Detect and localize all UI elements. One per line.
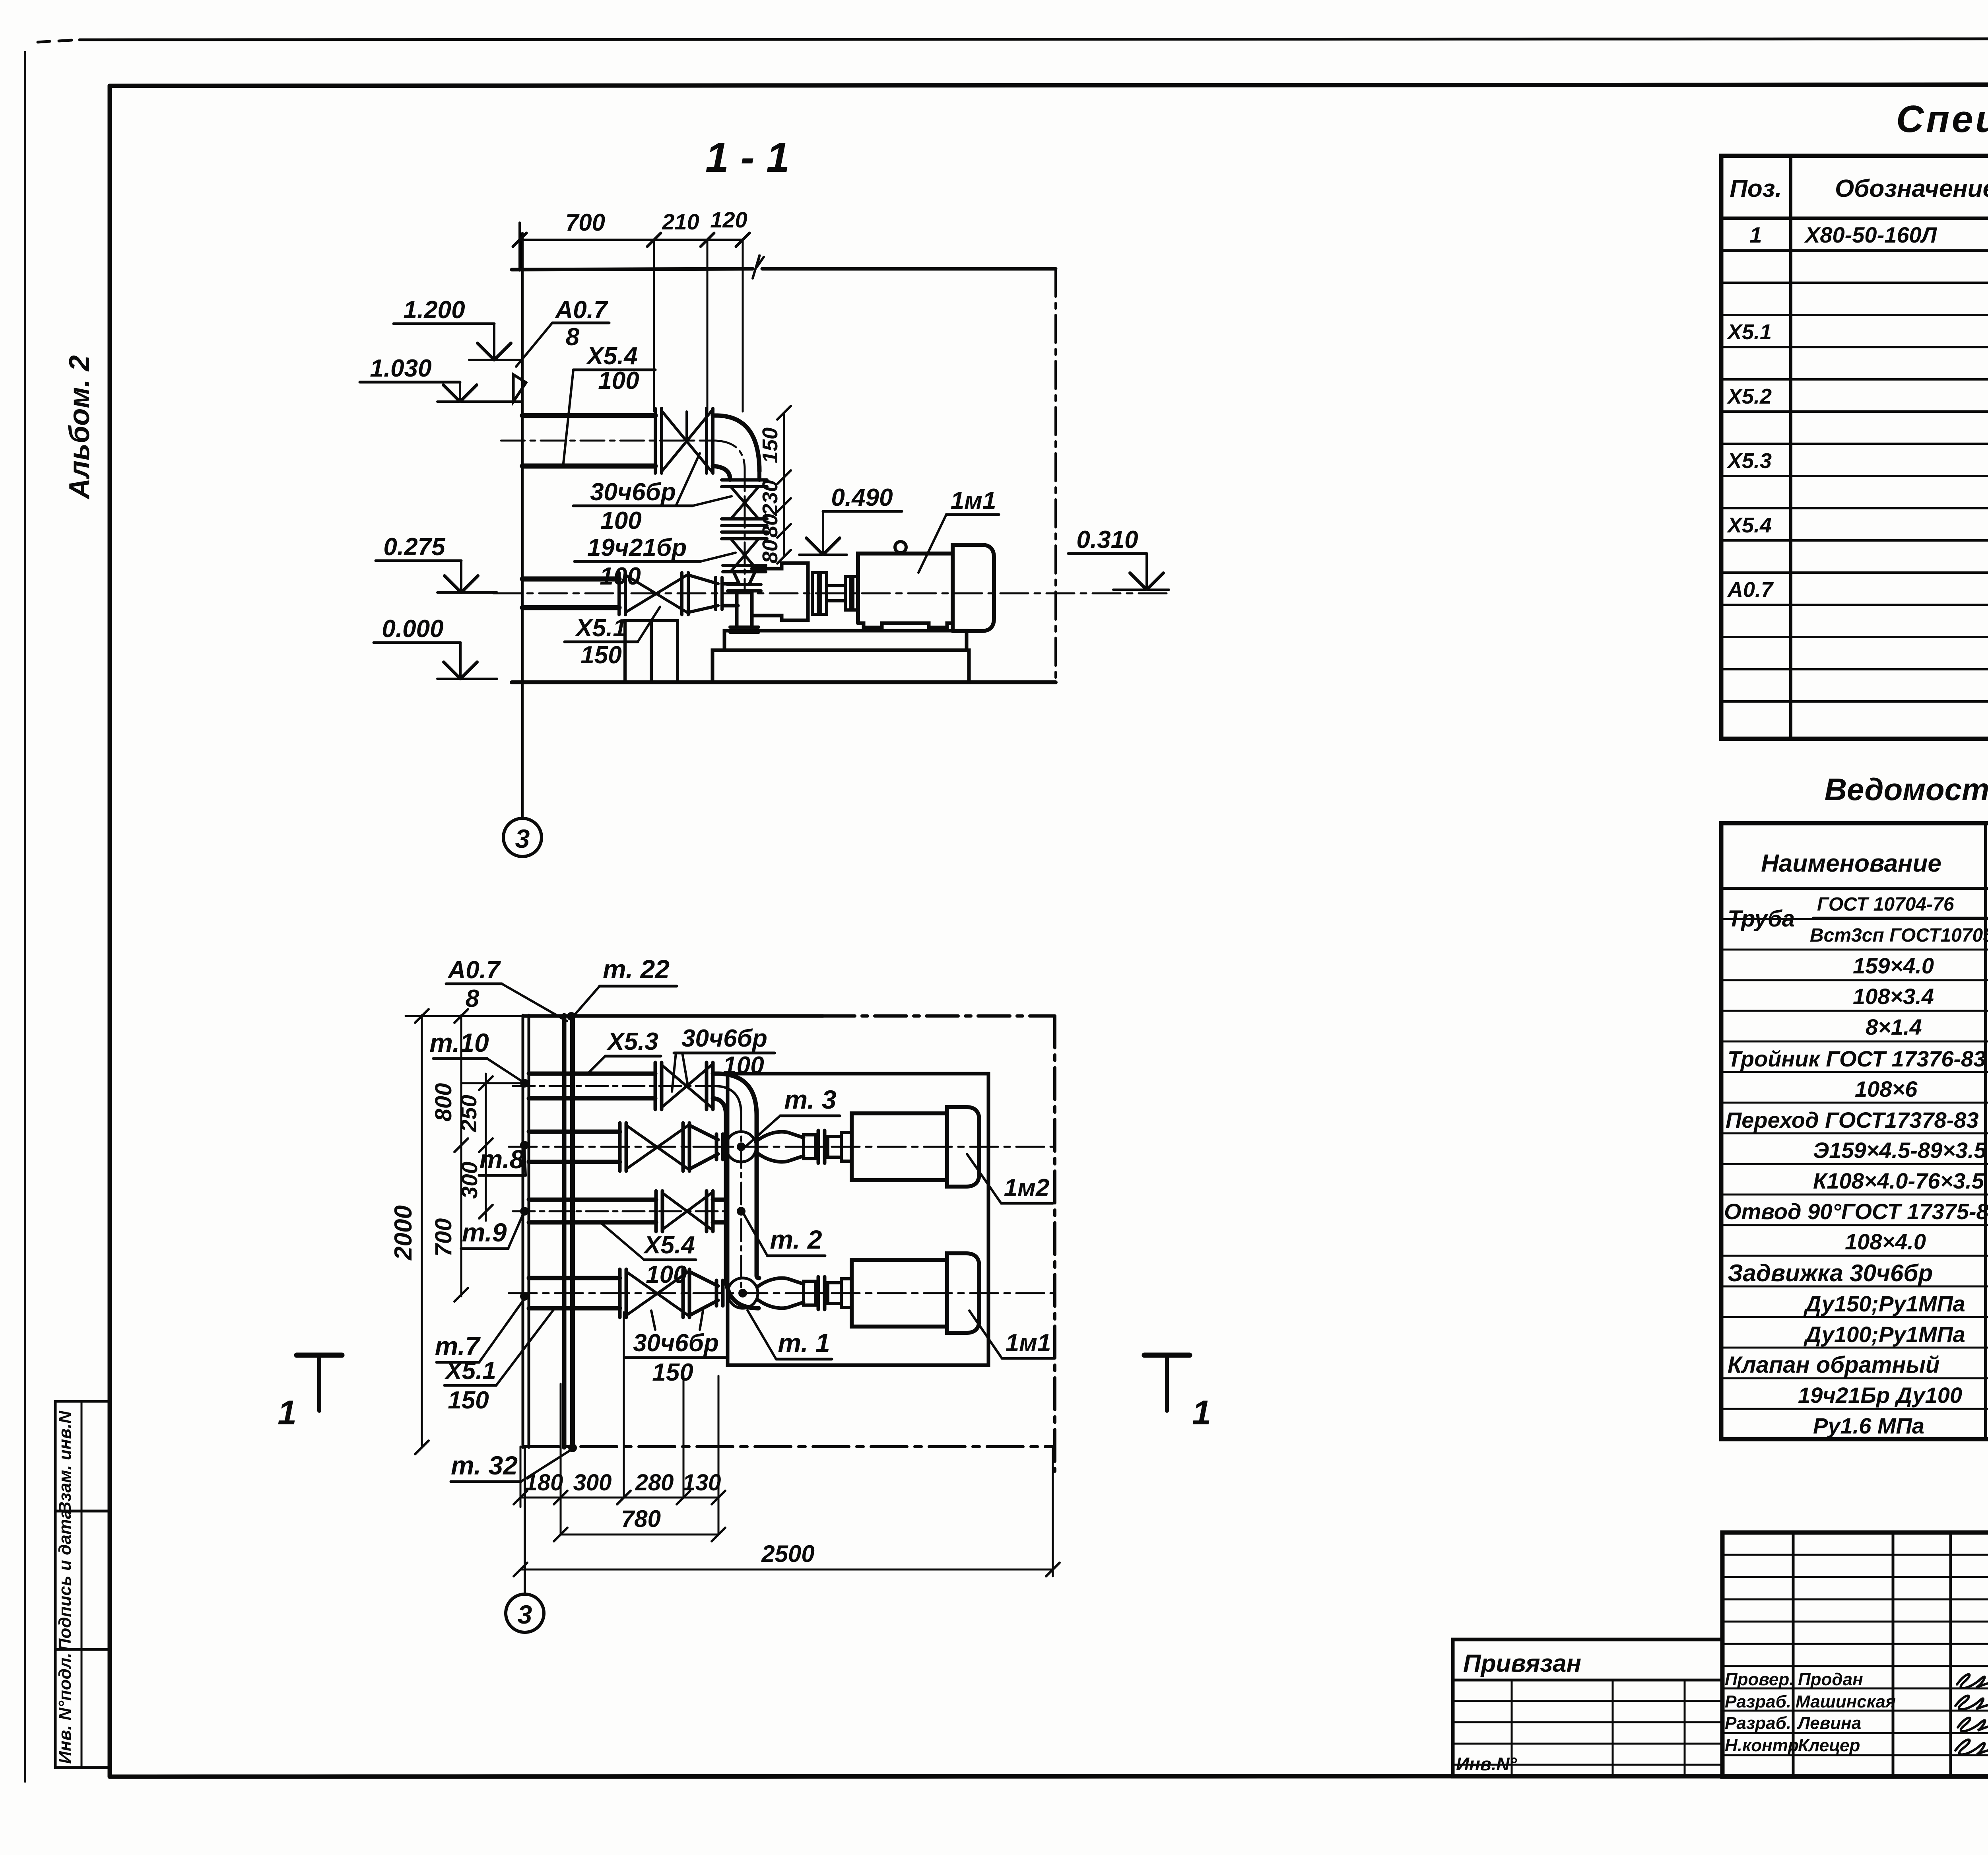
svg-text:1: 1 bbox=[1192, 1394, 1211, 1432]
svg-text:т.10: т.10 bbox=[429, 1028, 489, 1057]
svg-text:Н.контр: Н.контр bbox=[1725, 1736, 1799, 1755]
vedomost headers bbox=[1761, 829, 1988, 886]
sheet outer edge left bbox=[24, 52, 26, 1781]
section title 1-1 bbox=[705, 134, 790, 181]
section marker 1Т (left) bbox=[278, 1355, 342, 1432]
stamp outer box bbox=[1722, 1533, 1988, 1777]
room ceiling line bbox=[512, 254, 1056, 278]
pump baseplate bbox=[724, 631, 967, 650]
table title Ведомость трубопроводов bbox=[1825, 772, 1988, 807]
svg-text:Труба: Труба bbox=[1728, 906, 1795, 932]
elevation mark 0.310 bbox=[1068, 526, 1169, 590]
svg-text:Левина: Левина bbox=[1797, 1713, 1861, 1733]
svg-text:Продан: Продан bbox=[1798, 1670, 1863, 1689]
suction pipe Х5.1 (section) bbox=[493, 579, 1169, 608]
pipe А0.7 riser along wall (plan) bbox=[564, 1015, 573, 1447]
svg-text:Х5.1: Х5.1 bbox=[575, 614, 627, 642]
svg-text:0.000: 0.000 bbox=[382, 615, 443, 643]
node т.9 dot bbox=[520, 1207, 529, 1216]
header elbow at т.1 (plan) bbox=[726, 1276, 759, 1308]
header pipe (plan, vertical) bbox=[726, 1109, 757, 1293]
svg-text:100: 100 bbox=[598, 367, 639, 394]
svg-text:Х5.4: Х5.4 bbox=[586, 342, 638, 370]
dimension chain 800/700 bbox=[431, 1009, 468, 1301]
svg-text:т. 32: т. 32 bbox=[451, 1451, 518, 1480]
reducer pump2 (plan) bbox=[689, 1125, 723, 1169]
svg-text:1.030: 1.030 bbox=[370, 355, 431, 382]
coupling (section) bbox=[812, 573, 858, 614]
svg-text:0.275: 0.275 bbox=[383, 533, 446, 561]
check valve 19ч21бр (vertical riser) bbox=[722, 532, 767, 572]
svg-text:Машинская: Машинская bbox=[1796, 1692, 1896, 1711]
svg-text:8: 8 bbox=[566, 323, 580, 351]
node label А0.7/8 bbox=[516, 296, 609, 367]
elevation mark 1.200 bbox=[394, 296, 520, 360]
svg-text:ГОСТ 10704-76: ГОСТ 10704-76 bbox=[1817, 894, 1954, 915]
floor line 0.000 bbox=[512, 680, 1056, 684]
svg-text:Ду100;Ру1МПа: Ду100;Ру1МПа bbox=[1804, 1322, 1965, 1347]
valve label 30ч6бр/100 bbox=[573, 453, 732, 534]
extension lines bbox=[654, 240, 743, 412]
equipment block outline (plan) bbox=[728, 1074, 988, 1365]
dimension line 700/210/120 bbox=[513, 207, 749, 270]
svg-text:1: 1 bbox=[278, 1394, 297, 1432]
elbow to riser bbox=[713, 416, 759, 479]
riser dimension chain 150/230/80/80 bbox=[758, 406, 791, 563]
dimension chain 250/300 bbox=[456, 1074, 523, 1221]
svg-text:2500: 2500 bbox=[761, 1540, 814, 1567]
svg-text:Переход ГОСТ17378-83: Переход ГОСТ17378-83 bbox=[1726, 1107, 1979, 1132]
pipe label Х5.1/150 bbox=[565, 607, 660, 669]
svg-text:159×4.0: 159×4.0 bbox=[1853, 953, 1934, 978]
dimension 2000 (vertical) bbox=[390, 1009, 529, 1454]
discharge cone into pump bbox=[728, 572, 761, 591]
pump casing (section) bbox=[730, 563, 808, 632]
svg-text:780: 780 bbox=[621, 1505, 661, 1532]
stamp left grid bbox=[1722, 1533, 1988, 1777]
wall sleeve pennant bbox=[513, 375, 526, 402]
svg-text:Инв.N°: Инв.N° bbox=[1456, 1754, 1517, 1774]
vedomost grid bbox=[1721, 823, 1988, 1439]
svg-text:т. 22: т. 22 bbox=[603, 954, 670, 984]
gate valve on pump1 suction (plan) bbox=[620, 1269, 689, 1317]
svg-text:700: 700 bbox=[431, 1218, 456, 1257]
pipe label Х5.4/100 bbox=[563, 342, 655, 463]
svg-text:Х5.4: Х5.4 bbox=[1726, 513, 1772, 537]
svg-text:108×6: 108×6 bbox=[1855, 1076, 1918, 1101]
gate valve 30ч6бр (vertical riser) bbox=[722, 480, 767, 526]
svg-text:Х5.2: Х5.2 bbox=[1726, 385, 1772, 408]
svg-text:Наименование: Наименование bbox=[1761, 850, 1941, 877]
label Х5.3 bbox=[588, 1028, 661, 1074]
label т.3 bbox=[744, 1085, 840, 1148]
label т.9 bbox=[461, 1213, 524, 1249]
room boundary bottom (plan, dash-dot) bbox=[523, 1445, 1055, 1448]
elevation mark 0.000 bbox=[374, 615, 497, 679]
spec rows text bbox=[1726, 222, 1988, 634]
node т.7 dot bbox=[520, 1292, 529, 1301]
elevation mark 1.030 bbox=[360, 355, 522, 402]
svg-text:3: 3 bbox=[515, 824, 530, 853]
section marker Т1 (right) bbox=[1144, 1355, 1211, 1432]
pipe Х5.4 (plan middle run) bbox=[513, 1200, 726, 1222]
elbow Х5.3 to header (plan) bbox=[713, 1074, 757, 1115]
node т.8 dot bbox=[520, 1141, 529, 1150]
svg-text:180: 180 bbox=[525, 1470, 563, 1496]
riser pipe bbox=[730, 469, 759, 592]
gate valve 30ч6бр on pipe Х5.4 (horizontal) bbox=[655, 408, 713, 473]
pump tag 1м2 bbox=[967, 1154, 1053, 1203]
bottom dimension chain 180/300/280/130 bbox=[514, 1312, 725, 1535]
svg-text:150: 150 bbox=[448, 1387, 489, 1414]
svg-text:120: 120 bbox=[710, 207, 747, 232]
tee node т.2 bbox=[737, 1207, 745, 1216]
svg-text:108×3.4: 108×3.4 bbox=[1853, 984, 1934, 1009]
svg-text:300: 300 bbox=[573, 1470, 612, 1496]
motor pump 1м2 (plan) bbox=[852, 1107, 979, 1187]
reducer pump1 (plan) bbox=[689, 1272, 723, 1315]
label т.32 bbox=[451, 1449, 572, 1482]
label А0.7/8 (plan) bbox=[446, 956, 567, 1021]
sheet outer edge top bbox=[38, 39, 1988, 42]
svg-text:Альбом. 2: Альбом. 2 bbox=[64, 355, 95, 499]
spec table headers bbox=[1730, 175, 1988, 202]
svg-text:Ведомость трубопроводов: Ведомость трубопроводов bbox=[1825, 772, 1988, 807]
label т.22 bbox=[573, 954, 677, 1017]
room boundary top (plan) bbox=[523, 1014, 1055, 1018]
rotated margin label: Альбом. 2 bbox=[64, 355, 95, 499]
label т.2 bbox=[744, 1214, 825, 1256]
svg-text:т.9: т.9 bbox=[462, 1218, 507, 1247]
svg-text:30ч6бр: 30ч6бр bbox=[590, 478, 676, 506]
svg-text:19ч21Бр Ду100: 19ч21Бр Ду100 bbox=[1798, 1383, 1962, 1408]
svg-text:Задвижка 30ч6бр: Задвижка 30ч6бр bbox=[1728, 1260, 1933, 1286]
svg-text:т. 2: т. 2 bbox=[770, 1225, 822, 1254]
svg-text:Х5.3: Х5.3 bbox=[606, 1028, 658, 1055]
svg-text:1м1: 1м1 bbox=[951, 487, 996, 515]
node т.32 dot bbox=[568, 1443, 577, 1452]
label Х5.1/150 (plan) bbox=[444, 1310, 553, 1414]
svg-text:108×4.0: 108×4.0 bbox=[1845, 1229, 1926, 1254]
svg-text:Ду150;Ру1МПа: Ду150;Ру1МПа bbox=[1804, 1291, 1965, 1316]
svg-text:А0.7: А0.7 bbox=[555, 296, 608, 324]
table title Спецификация bbox=[1896, 98, 1988, 140]
svg-text:150: 150 bbox=[758, 427, 782, 463]
pipe support stand bbox=[625, 621, 678, 682]
elevation mark 0.490 bbox=[799, 484, 902, 555]
pump tag 1м1 bbox=[969, 1311, 1054, 1358]
svg-text:230: 230 bbox=[758, 480, 782, 516]
svg-text:т. 1: т. 1 bbox=[778, 1328, 830, 1358]
svg-text:130: 130 bbox=[683, 1470, 721, 1496]
dimension 780 bbox=[554, 1505, 725, 1541]
svg-text:1м1: 1м1 bbox=[1006, 1329, 1051, 1357]
eccentric reducer bbox=[688, 575, 738, 612]
svg-text:80: 80 bbox=[758, 540, 782, 563]
suction pipe pump1 (plan) bbox=[509, 1278, 1055, 1308]
svg-text:т.7: т.7 bbox=[435, 1331, 481, 1361]
axis bubble 3 (plan) bbox=[506, 1594, 544, 1632]
elevation mark 0.275 bbox=[376, 533, 497, 592]
label 30ч6бр/150 (plan bottom) bbox=[626, 1311, 726, 1386]
label 30ч6бр/100 (plan top) bbox=[672, 1025, 775, 1092]
svg-text:1.200: 1.200 bbox=[403, 296, 465, 324]
svg-text:Поз.: Поз. bbox=[1730, 175, 1782, 202]
gate valve on suction (section) bbox=[619, 573, 688, 615]
column axis 3 (vertical) bbox=[521, 233, 524, 818]
foundation block bbox=[712, 650, 969, 682]
svg-text:210: 210 bbox=[662, 209, 699, 234]
pipe Х5.3 (plan top run) bbox=[513, 1074, 720, 1098]
svg-text:Х5.1: Х5.1 bbox=[444, 1357, 496, 1385]
svg-text:1: 1 bbox=[1749, 222, 1762, 247]
tee node т.3 bbox=[726, 1132, 756, 1162]
svg-text:Тройник ГОСТ 17376-83: Тройник ГОСТ 17376-83 bbox=[1728, 1046, 1986, 1071]
svg-text:150: 150 bbox=[580, 641, 621, 669]
pump2 suction bell (plan) bbox=[757, 1130, 852, 1163]
label т.10 bbox=[429, 1028, 524, 1082]
svg-text:Клецер: Клецер bbox=[1798, 1736, 1860, 1755]
valve label 19ч21бр/100 bbox=[575, 534, 736, 590]
svg-text:Спецификация: Спецификация bbox=[1896, 98, 1988, 140]
room boundary right (plan, dash-dot) bbox=[1053, 1016, 1056, 1471]
electric motor (section) bbox=[858, 542, 994, 631]
svg-text:Ру1.6 МПа: Ру1.6 МПа bbox=[1813, 1413, 1924, 1438]
label т.8 bbox=[479, 1144, 526, 1175]
svg-text:30ч6бр: 30ч6бр bbox=[681, 1025, 767, 1052]
svg-text:30ч6бр: 30ч6бр bbox=[633, 1329, 719, 1357]
label т.1 bbox=[747, 1310, 832, 1359]
dimension 2500 bbox=[514, 1447, 1060, 1576]
svg-text:Х5.1: Х5.1 bbox=[1726, 320, 1772, 344]
node т.22 dot bbox=[567, 1012, 576, 1021]
pipe Х5.4 upper (section) bbox=[501, 416, 716, 466]
svg-text:Разраб.: Разраб. bbox=[1725, 1713, 1791, 1733]
svg-text:1м2: 1м2 bbox=[1004, 1174, 1050, 1202]
svg-text:3: 3 bbox=[518, 1600, 532, 1629]
svg-text:т.8: т.8 bbox=[480, 1144, 524, 1174]
svg-text:0.490: 0.490 bbox=[831, 484, 893, 511]
svg-text:150: 150 bbox=[652, 1359, 693, 1386]
room right axis (dash-dot) bbox=[1054, 269, 1057, 682]
gate valve on Х5.4 (plan) bbox=[656, 1191, 726, 1231]
axis bubble 3 bbox=[503, 818, 542, 857]
pump1 suction bell (plan) bbox=[757, 1277, 852, 1309]
suction pipe pump2 (plan) bbox=[509, 1132, 1055, 1162]
vedomost rows bbox=[1724, 894, 1988, 1438]
svg-text:Х5.3: Х5.3 bbox=[1726, 449, 1772, 473]
svg-text:250: 250 bbox=[456, 1095, 481, 1132]
privyazan block bbox=[1453, 1639, 1722, 1777]
svg-text:Вст3сп ГОСТ10705-80: Вст3сп ГОСТ10705-80 bbox=[1810, 925, 1988, 946]
svg-text:100: 100 bbox=[646, 1261, 687, 1288]
svg-text:Разраб.: Разраб. bbox=[1725, 1692, 1791, 1711]
node т.10 dot bbox=[520, 1079, 529, 1088]
svg-text:Привязан: Привязан bbox=[1463, 1650, 1581, 1677]
svg-text:т. 3: т. 3 bbox=[784, 1085, 836, 1114]
axis line to bubble (plan) bbox=[524, 1447, 526, 1594]
svg-text:К108×4.0-76×3.5: К108×4.0-76×3.5 bbox=[1813, 1168, 1984, 1193]
svg-text:700: 700 bbox=[565, 209, 605, 236]
gate valve on Х5.3 (plan) bbox=[655, 1062, 713, 1109]
svg-text:Инв. N°подл.: Инв. N°подл. bbox=[55, 1653, 75, 1764]
svg-text:Подпись и дата: Подпись и дата bbox=[55, 1509, 75, 1651]
svg-text:А0.7: А0.7 bbox=[1727, 578, 1774, 602]
svg-text:Х5.4: Х5.4 bbox=[643, 1231, 695, 1259]
svg-text:1 - 1: 1 - 1 bbox=[705, 134, 790, 181]
svg-text:А0.7: А0.7 bbox=[447, 956, 501, 984]
svg-text:Э159×4.5-89×3.5: Э159×4.5-89×3.5 bbox=[1813, 1138, 1987, 1163]
svg-text:8×1.4: 8×1.4 bbox=[1866, 1014, 1922, 1039]
svg-text:2000: 2000 bbox=[390, 1205, 417, 1261]
svg-text:800: 800 bbox=[431, 1083, 456, 1122]
left attachment table (Взам.инв / Подпись и дата / Инв.№подл.) bbox=[55, 1401, 110, 1768]
svg-text:80: 80 bbox=[758, 514, 782, 538]
wall (plan) bbox=[523, 1015, 529, 1447]
spec table grid bbox=[1721, 156, 1988, 739]
svg-text:300: 300 bbox=[457, 1162, 482, 1198]
label Х5.4/100 (plan) bbox=[601, 1223, 696, 1288]
label т.7 bbox=[435, 1299, 524, 1362]
svg-text:Взам. инв.N: Взам. инв.N bbox=[55, 1410, 75, 1514]
svg-text:280: 280 bbox=[635, 1470, 674, 1496]
svg-text:Отвод 90°ГОСТ 17375-83: Отвод 90°ГОСТ 17375-83 bbox=[1724, 1199, 1988, 1224]
stamp names bbox=[1725, 1670, 1988, 1766]
svg-text:Х80-50-160Л: Х80-50-160Л bbox=[1804, 222, 1938, 247]
svg-text:Обозначение: Обозначение bbox=[1835, 175, 1988, 202]
gate valve on pump2 suction (plan) bbox=[620, 1123, 689, 1171]
svg-text:Клапан обратный: Клапан обратный bbox=[1728, 1352, 1939, 1378]
svg-text:Провер.: Провер. bbox=[1725, 1670, 1794, 1689]
svg-text:100: 100 bbox=[600, 507, 641, 534]
pump tag 1м1 (section) bbox=[918, 487, 999, 573]
motor pump 1м1 (plan) bbox=[852, 1253, 979, 1333]
svg-text:0.310: 0.310 bbox=[1076, 526, 1138, 554]
svg-text:19ч21бр: 19ч21бр bbox=[587, 534, 687, 561]
